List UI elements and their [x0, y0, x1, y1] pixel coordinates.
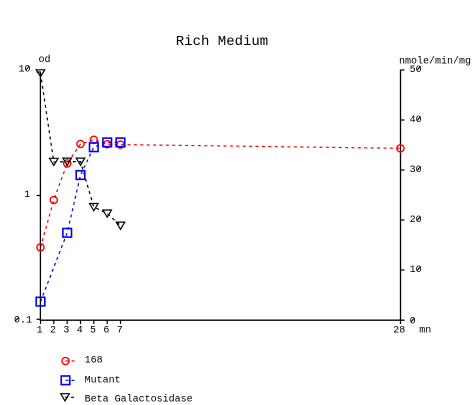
- marker Beta Galactosidase t=3 (black triangle): [63, 158, 72, 165]
- x-axis tick 28: [400, 320, 402, 324]
- legend marker Beta Galactosidase (black triangle): [61, 394, 70, 401]
- marker Beta Galactosidase t=4 (black triangle): [76, 158, 85, 165]
- x-axis tick 5: [93, 320, 95, 324]
- svg-text:1: 1: [37, 326, 43, 337]
- svg-text:7: 7: [117, 326, 123, 337]
- right axis tick 10: [401, 269, 405, 271]
- x-axis tick 1: [40, 320, 42, 324]
- svg-text:5: 5: [90, 326, 96, 337]
- left axis tick 10: [37, 71, 41, 73]
- x-axis tick 6: [106, 320, 108, 324]
- marker Beta Galactosidase t=5 (black triangle): [90, 204, 99, 211]
- svg-text:168: 168: [85, 356, 103, 367]
- svg-text:Rich Medium: Rich Medium: [176, 34, 268, 50]
- svg-text:od: od: [39, 54, 51, 66]
- marker Beta Galactosidase t=7 (black triangle): [116, 222, 125, 229]
- right axis tick 20: [401, 219, 405, 221]
- x-axis tick 3: [66, 320, 68, 324]
- svg-text:mn: mn: [419, 326, 431, 337]
- slashed zero of right label 40: [417, 117, 421, 121]
- slashed zero of right label 20: [417, 217, 421, 221]
- left y-axis (od, log scale): [39, 72, 41, 321]
- marker 168 t=3 (red circle): [64, 160, 71, 167]
- marker 168 t=5 (red circle): [90, 136, 97, 143]
- marker Mutant t=1 (blue square): [36, 297, 45, 306]
- series line Mutant (blue dashed): [41, 142, 121, 301]
- right axis tick 50: [401, 69, 405, 71]
- x-axis tick 2: [53, 320, 55, 324]
- svg-text:2: 2: [50, 326, 56, 337]
- marker 168 t=6 (red circle): [104, 141, 111, 148]
- svg-text:1: 1: [24, 190, 30, 201]
- legend sample line Beta Galactosidase: [65, 396, 76, 398]
- right y-axis (nmole/min/mg): [400, 70, 402, 320]
- series line 168 (red dashed): [41, 140, 401, 248]
- slashed zero of right label 50: [417, 66, 421, 70]
- slashed zero of right label 0: [411, 318, 415, 322]
- marker 168 t=1 (red circle): [37, 244, 44, 251]
- slashed zero of left label 10: [26, 66, 30, 70]
- x-axis (time): [40, 319, 405, 321]
- marker Mutant t=6 (blue square): [103, 138, 112, 147]
- slashed zero of left label 0.1: [15, 317, 19, 321]
- svg-text:0.1: 0.1: [14, 316, 32, 327]
- legend marker 168 (red circle): [62, 357, 69, 364]
- marker Beta Galactosidase t=1 (black triangle): [36, 70, 45, 77]
- left axis tick 1: [37, 195, 41, 197]
- marker 168 t=28 (red circle): [397, 145, 404, 152]
- marker Mutant t=7 (blue square): [116, 138, 125, 147]
- svg-text:3: 3: [63, 326, 69, 337]
- svg-text:Mutant: Mutant: [85, 375, 121, 386]
- x-axis tick 7: [120, 320, 122, 324]
- legend sample line 168: [66, 360, 77, 362]
- left axis tick 0.1: [37, 318, 41, 320]
- x-axis tick 4: [80, 320, 82, 324]
- svg-text:4: 4: [77, 326, 83, 337]
- marker Beta Galactosidase t=6 (black triangle): [103, 210, 112, 217]
- svg-text:28: 28: [393, 326, 405, 337]
- svg-text:6: 6: [103, 326, 109, 337]
- series line Beta Galactosidase (black dashed): [41, 73, 121, 225]
- svg-text:Beta Galactosidase: Beta Galactosidase: [85, 394, 193, 405]
- marker 168 t=2 (red circle): [50, 196, 57, 203]
- marker Mutant t=3 (blue square): [63, 229, 72, 238]
- slashed zero of right label 10: [417, 267, 421, 271]
- marker 168 t=7 (red circle): [117, 141, 124, 148]
- marker Beta Galactosidase t=2 (black triangle): [50, 158, 59, 165]
- marker Mutant t=5 (blue square): [90, 143, 99, 152]
- slashed zero of right label 30: [417, 167, 421, 171]
- right axis tick 40: [401, 119, 405, 121]
- legend sample line Mutant: [66, 379, 77, 381]
- marker 168 t=4 (red circle): [77, 140, 84, 147]
- right axis tick 30: [401, 169, 405, 171]
- marker Mutant t=4 (blue square): [76, 171, 85, 180]
- legend marker Mutant (blue square): [61, 376, 70, 385]
